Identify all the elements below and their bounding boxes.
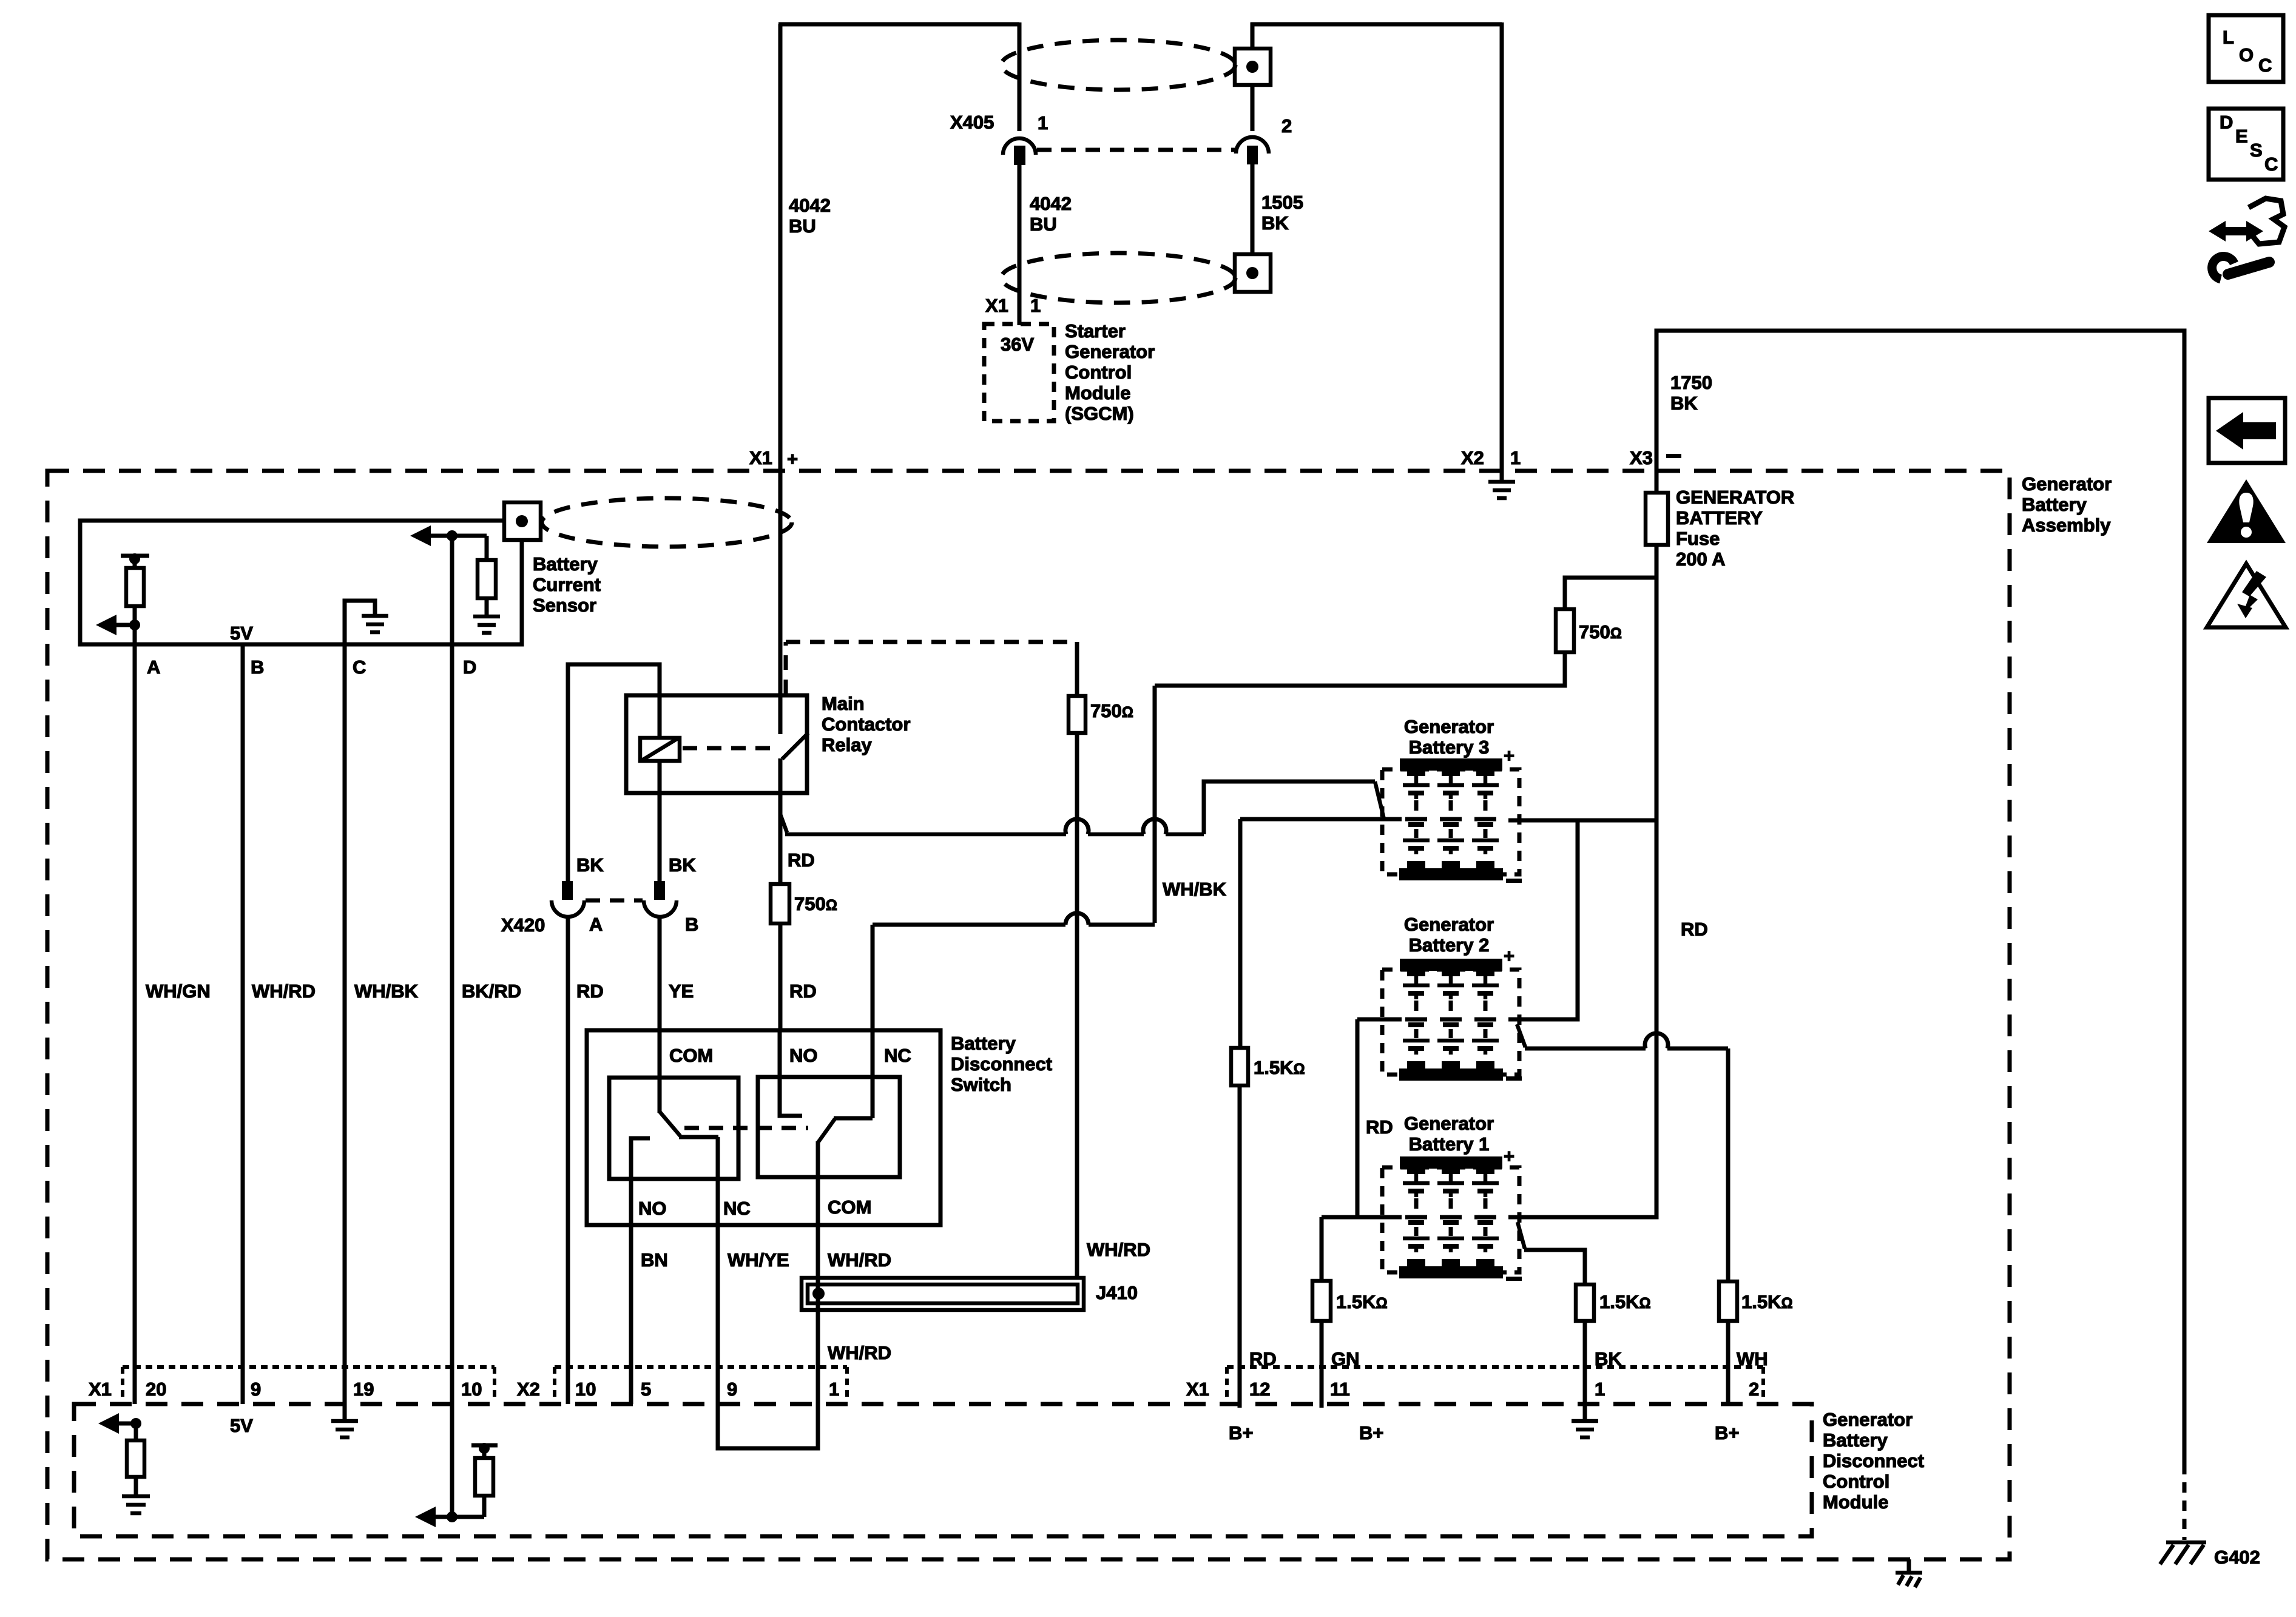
wire: relay output down to 750 ohm bbox=[778, 793, 783, 884]
svg-text:36V: 36V bbox=[1001, 334, 1034, 355]
wire: equalizing bus to battery 3 with hops bbox=[785, 819, 1204, 834]
svg-text:10: 10 bbox=[575, 1379, 596, 1400]
svg-text:Relay: Relay bbox=[822, 734, 872, 755]
label: 5V (inside sensor) bbox=[230, 623, 253, 644]
resistor (module leg A) bbox=[127, 1423, 144, 1477]
resistor 1.5K (WH sense X1-2) bbox=[1719, 1281, 1737, 1321]
svg-text:1: 1 bbox=[1510, 447, 1521, 468]
svg-text:NC: NC bbox=[723, 1198, 751, 1219]
svg-text:BK/RD: BK/RD bbox=[462, 981, 521, 1002]
label: 750 ohm (fuse branch) bbox=[1579, 621, 1622, 643]
label: WH/RD below J410 bbox=[828, 1342, 891, 1363]
svg-text:BATTERY: BATTERY bbox=[1676, 507, 1763, 528]
pole 2: NC wire from WH/BK ladder bbox=[871, 1030, 875, 1118]
resistor (sensor leg D) bbox=[478, 560, 496, 598]
label: J410 bbox=[1096, 1282, 1138, 1303]
svg-text:RD: RD bbox=[576, 981, 604, 1002]
svg-text:1: 1 bbox=[1030, 295, 1041, 316]
wire: battery 2 left mid tap bbox=[1357, 1018, 1402, 1022]
svg-text:X2: X2 bbox=[1461, 447, 1484, 468]
label: strip X1 left pins 20 9 19 10 bbox=[89, 1379, 482, 1400]
wire: enclosure right leg down to 750 ohm bbox=[1075, 642, 1079, 696]
label: bottom terminals NO NC COM bbox=[638, 1197, 871, 1219]
wire: sensor pin B WH/RD 5V to X1-9 bbox=[241, 644, 245, 1404]
svg-text:WH/RD: WH/RD bbox=[828, 1342, 891, 1363]
svg-text:NO: NO bbox=[638, 1198, 667, 1219]
pole 1: NC wire down bbox=[716, 1137, 720, 1225]
wire: battery 3 left mid tap to 1.5K RD sense bbox=[1240, 817, 1402, 822]
Main Contactor Relay box bbox=[626, 695, 807, 793]
svg-text:BU: BU bbox=[789, 215, 816, 237]
wire: X2 pin 1 drop to ground bbox=[1500, 22, 1504, 471]
dashed mating line between X405 halves bbox=[1037, 148, 1235, 152]
icon: removal/installation wrench with double arrow bbox=[2209, 198, 2284, 279]
connector X420 terminal B bbox=[644, 881, 677, 917]
Battery Current Sensor box bbox=[80, 521, 522, 644]
label: Generator Battery 3 bbox=[1404, 716, 1494, 758]
svg-text:(SGCM): (SGCM) bbox=[1065, 403, 1134, 424]
wire: RD sense to X1-12 bbox=[1238, 1085, 1242, 1404]
svg-text:J410: J410 bbox=[1096, 1282, 1138, 1303]
wire: BN from switch NO to X2-5 bbox=[629, 1225, 633, 1404]
label: BK BK coil wires bbox=[576, 854, 696, 876]
svg-text:+: + bbox=[787, 448, 798, 470]
chassis ground stub on assembly box bottom bbox=[1896, 1559, 1922, 1587]
label: B+ at pins 12 11 2 bbox=[1229, 1422, 1740, 1443]
wire: 4042 BU from X405 pin 1 to SGCM X1-1 bbox=[1018, 164, 1022, 325]
wire: equalizer lead down to J410 bbox=[1075, 733, 1079, 1278]
svg-text:COM: COM bbox=[828, 1197, 871, 1218]
svg-text:B+: B+ bbox=[1359, 1422, 1384, 1443]
svg-text:E: E bbox=[2235, 126, 2248, 147]
svg-text:C: C bbox=[2258, 55, 2272, 76]
svg-text:X420: X420 bbox=[501, 914, 545, 936]
resistor 1.5K (RD sense X1-12) bbox=[1231, 1048, 1248, 1085]
svg-text:Switch: Switch bbox=[951, 1074, 1011, 1095]
svg-text:1.5KΩ: 1.5KΩ bbox=[1254, 1057, 1305, 1078]
wire: relay coil terminal A loop to X420-A bbox=[568, 664, 660, 881]
wire: battery 1 left sense drop GN bbox=[1320, 1217, 1324, 1281]
label: 1.5K ohm (RD) bbox=[1254, 1057, 1305, 1078]
label: Generator Battery 1 bbox=[1404, 1113, 1494, 1155]
diagonal tap battery 1 to BK sense bbox=[1518, 1222, 1525, 1249]
wire: top horizontal from X1+ riser to X405 pin 1 bbox=[778, 22, 1019, 27]
svg-text:Battery: Battery bbox=[951, 1033, 1016, 1054]
svg-text:Fuse: Fuse bbox=[1676, 528, 1720, 549]
battery 1 mid plates bbox=[1405, 1215, 1496, 1220]
sensor connector box with junction dot bbox=[504, 502, 541, 540]
svg-text:200 A: 200 A bbox=[1676, 549, 1726, 570]
svg-text:Generator: Generator bbox=[1823, 1409, 1913, 1430]
battery 2 cells bbox=[1403, 970, 1499, 1069]
supply tap bar with dot above sensor resistor A bbox=[121, 553, 149, 568]
svg-text:1: 1 bbox=[829, 1379, 839, 1400]
svg-text:A: A bbox=[147, 657, 160, 678]
wire: sensor pin A WH/GN to X1-20 bbox=[133, 625, 137, 1404]
Battery Disconnect Switch box bbox=[587, 1030, 940, 1225]
svg-text:Assembly: Assembly bbox=[2022, 515, 2111, 536]
svg-text:RD: RD bbox=[788, 849, 815, 871]
ground symbol inside sensor (leg C) bbox=[345, 601, 388, 644]
Generator battery solid enclosure top/right bbox=[1656, 331, 2184, 1464]
svg-text:19: 19 bbox=[353, 1379, 374, 1400]
module leg D: drop arrow junction and pull-up bbox=[415, 1404, 484, 1527]
icon: caution triangle with exclamation bbox=[2207, 479, 2286, 543]
svg-text:1505: 1505 bbox=[1261, 192, 1303, 213]
label: 1.5K ohm (GN) bbox=[1336, 1291, 1388, 1312]
svg-text:Battery 1: Battery 1 bbox=[1409, 1133, 1490, 1155]
svg-text:Generator: Generator bbox=[1404, 914, 1494, 935]
switch pole 2 inner box bbox=[758, 1077, 900, 1177]
pole 1: COM wire and blade to NC bbox=[660, 1030, 718, 1137]
svg-text:1: 1 bbox=[1038, 112, 1048, 133]
svg-text:Generator: Generator bbox=[1404, 716, 1494, 737]
connector strip X1 (module right) dotted bbox=[1227, 1367, 1763, 1402]
svg-text:Main: Main bbox=[822, 693, 865, 714]
wire: WH/RD from switch COM through J410 to X2-1 bbox=[816, 1225, 820, 1404]
wire: sensor pin D BK/RD to X1-10 bbox=[450, 536, 454, 1404]
ground symbol under leg D resistor bbox=[473, 598, 500, 633]
svg-text:750Ω: 750Ω bbox=[1090, 700, 1133, 721]
svg-text:1750: 1750 bbox=[1670, 372, 1712, 393]
wire: WH sense to X1-2 bbox=[1726, 1321, 1730, 1404]
wire: X420-A RD down to X2-10 bbox=[566, 916, 570, 1404]
label: Generator Battery Assembly bbox=[2022, 473, 2112, 536]
svg-text:X1: X1 bbox=[985, 295, 1008, 316]
svg-text:5: 5 bbox=[641, 1379, 651, 1400]
label: X405 pin 2 bbox=[1281, 115, 1292, 137]
icon: electrical shock triangle bbox=[2207, 564, 2286, 627]
svg-text:Battery 3: Battery 3 bbox=[1409, 737, 1490, 758]
resistor 750 ohm (fuse branch) bbox=[1556, 609, 1574, 652]
ground symbol (module leg 19) bbox=[331, 1404, 358, 1437]
wire: between splice box and X405 pin 2 bbox=[1251, 85, 1255, 131]
svg-text:X1: X1 bbox=[89, 1379, 112, 1400]
label: BN WH/YE WH/RD bbox=[641, 1249, 891, 1271]
label: RD below relay bbox=[788, 849, 815, 871]
svg-text:Generator: Generator bbox=[1065, 341, 1155, 362]
svg-text:WH/BK: WH/BK bbox=[354, 981, 419, 1002]
svg-text:12: 12 bbox=[1249, 1379, 1270, 1400]
diagonal tap battery 2 to WH sense line bbox=[1517, 1024, 1525, 1047]
wire: series link battery 2 left to battery 1 left mid (RD) bbox=[1322, 1019, 1402, 1217]
svg-text:WH/BK: WH/BK bbox=[1163, 879, 1227, 900]
signal arrow and junction dot on leg A bbox=[96, 615, 140, 635]
wire: X405 pin 1 drop bbox=[1018, 22, 1022, 131]
connector X405 pin 2 female terminal arc bbox=[1236, 137, 1269, 154]
connector label X3 - on assembly boundary bbox=[1630, 447, 1681, 468]
pole 1: NO contact stub bbox=[631, 1138, 650, 1225]
icon: LOC box bbox=[2209, 15, 2283, 82]
wire: WH/YE from switch NC to X2-9 bbox=[716, 1225, 720, 1404]
svg-text:Disconnect: Disconnect bbox=[1823, 1450, 1924, 1471]
svg-text:B: B bbox=[251, 657, 264, 678]
svg-text:NC: NC bbox=[884, 1045, 911, 1066]
wire: SGCM X1 feed 4042 BU vertical (circuit 4042) bbox=[778, 24, 783, 695]
svg-text:1: 1 bbox=[1595, 1379, 1605, 1400]
label: wire 1750 BK bbox=[1670, 372, 1712, 414]
svg-text:RD: RD bbox=[789, 981, 817, 1002]
svg-text:Generator: Generator bbox=[1404, 1113, 1494, 1134]
svg-text:WH/RD: WH/RD bbox=[828, 1249, 891, 1271]
pole 2: blade from COM to NC bbox=[818, 1118, 873, 1143]
label: Main Contactor Relay bbox=[822, 693, 910, 755]
wire: battery 1 right mid tap to RD bus corner bbox=[1508, 1215, 1656, 1217]
ground symbol (module pin 1 BK) bbox=[1572, 1404, 1598, 1437]
label: Battery Disconnect Switch bbox=[951, 1033, 1052, 1095]
svg-text:X405: X405 bbox=[950, 112, 994, 133]
label: RD on main bus bbox=[1681, 919, 1708, 940]
label: strip X1 right pins 12 11 1 2 bbox=[1186, 1379, 1759, 1400]
svg-text:BK: BK bbox=[669, 854, 696, 876]
svg-text:B: B bbox=[685, 914, 698, 935]
harness ellipse (upper) crossing X405 leads bbox=[1001, 40, 1235, 90]
wire: X405 pin 2 upper drop bbox=[1251, 22, 1255, 50]
ground symbol at SGCM X2-1 bbox=[1488, 471, 1515, 498]
wire: X1-12 stub into module bbox=[1238, 1404, 1242, 1408]
harness ellipse (lower) crossing SGCM lead bbox=[1001, 253, 1235, 303]
svg-text:+: + bbox=[1504, 945, 1514, 967]
svg-text:BK: BK bbox=[1261, 212, 1289, 234]
label: RD series link bbox=[1366, 1116, 1393, 1138]
label: SGCM connector X1 1 bbox=[985, 295, 1041, 316]
label: top terminals COM NO NC bbox=[669, 1045, 911, 1066]
relay enclosure dashed outline bbox=[786, 642, 1077, 694]
battery 3 cells bbox=[1403, 770, 1499, 869]
wire: NC feed drop into battery disconnect switch bbox=[871, 925, 875, 1030]
resistor (sensor leg A pull-up) bbox=[126, 568, 144, 606]
splice box on 1505 BK (lower) bbox=[1235, 254, 1271, 292]
connector X405 pin 1 female terminal arc bbox=[1003, 138, 1036, 155]
svg-text:X2: X2 bbox=[517, 1379, 540, 1400]
svg-text:9: 9 bbox=[251, 1379, 261, 1400]
fuse: GENERATOR BATTERY Fuse 200 A bbox=[1646, 493, 1668, 545]
connector X420 terminal A bbox=[552, 881, 584, 917]
battery 2 mid plates bbox=[1405, 1018, 1496, 1022]
svg-text:Current: Current bbox=[533, 574, 601, 595]
label: strip X2 pins 10 5 9 1 bbox=[517, 1379, 839, 1400]
svg-text:B+: B+ bbox=[1229, 1422, 1254, 1443]
resistor 750 ohm (equalizer to J410) bbox=[1069, 696, 1086, 733]
svg-text:YE: YE bbox=[669, 981, 694, 1002]
svg-text:RD: RD bbox=[1366, 1116, 1393, 1138]
label: Starter Generator Control Module (SGCM) bbox=[1065, 320, 1155, 424]
svg-text:750Ω: 750Ω bbox=[794, 893, 837, 914]
svg-text:BN: BN bbox=[641, 1249, 668, 1271]
label: pin letters A B C D bbox=[147, 657, 476, 678]
ground symbol (module leg A) bbox=[122, 1477, 150, 1513]
svg-text:Battery 2: Battery 2 bbox=[1409, 934, 1490, 956]
battery 3 mid plates bbox=[1405, 817, 1496, 822]
svg-text:D: D bbox=[463, 657, 476, 678]
connector label X2 1 on assembly boundary bbox=[1461, 447, 1521, 468]
svg-text:Battery: Battery bbox=[2022, 494, 2087, 515]
svg-text:Generator: Generator bbox=[2022, 473, 2112, 495]
label: RD above switch NO bbox=[789, 981, 817, 1002]
svg-text:GENERATOR: GENERATOR bbox=[1676, 487, 1794, 508]
svg-text:Starter: Starter bbox=[1065, 320, 1126, 342]
Generator Battery Assembly outer dashed box bbox=[47, 471, 2010, 1559]
chassis ground G402 bbox=[2160, 1542, 2206, 1564]
Generator Battery Disconnect Control Module dashed box bbox=[74, 1404, 1812, 1536]
label: WH/RD above J410 right lead bbox=[1087, 1239, 1150, 1260]
svg-text:5V: 5V bbox=[230, 623, 253, 644]
svg-text:Control: Control bbox=[1065, 362, 1132, 383]
relay contact: incoming wire and open blade bbox=[780, 695, 808, 793]
module loop joining X2-9 and X2-1 bbox=[718, 1404, 818, 1448]
svg-text:4042: 4042 bbox=[789, 195, 831, 216]
svg-text:+: + bbox=[1504, 745, 1514, 766]
svg-text:2: 2 bbox=[1281, 115, 1292, 137]
wire: GN sense to X1-11 bbox=[1320, 1321, 1324, 1404]
svg-text:L: L bbox=[2223, 27, 2234, 48]
harness ellipse at battery current sensor bbox=[542, 498, 792, 547]
svg-text:Battery: Battery bbox=[1823, 1430, 1888, 1451]
wire: X420-B YE down to switch COM bbox=[658, 916, 662, 1030]
label: Generator Battery Disconnect Control Module bbox=[1823, 1409, 1924, 1513]
icon: DESC box bbox=[2209, 109, 2283, 180]
svg-text:Control: Control bbox=[1823, 1471, 1889, 1492]
svg-text:Disconnect: Disconnect bbox=[951, 1053, 1052, 1075]
label: wire 4042 BU (right) bbox=[1030, 193, 1072, 235]
svg-text:Module: Module bbox=[1065, 382, 1131, 403]
svg-text:4042: 4042 bbox=[1030, 193, 1072, 214]
connector label X1 + on assembly boundary bbox=[749, 447, 798, 470]
supply tap bar with dot above leg D resistor bbox=[471, 1443, 498, 1458]
label: RD YE below X420 bbox=[576, 981, 694, 1002]
switch pole 1 inner box bbox=[609, 1078, 738, 1179]
svg-text:20: 20 bbox=[146, 1379, 166, 1400]
svg-text:Contactor: Contactor bbox=[822, 714, 910, 735]
svg-text:B+: B+ bbox=[1715, 1422, 1740, 1443]
label: 5V at module pin 9 bbox=[230, 1415, 253, 1436]
svg-text:COM: COM bbox=[669, 1045, 713, 1066]
dashed tail of right enclosure edge to G402 bbox=[2183, 1464, 2187, 1540]
svg-text:G402: G402 bbox=[2214, 1547, 2260, 1568]
SGCM module dashed box bbox=[984, 324, 1054, 421]
label: wire 4042 BU (left) bbox=[789, 195, 831, 237]
svg-text:WH/RD: WH/RD bbox=[252, 981, 316, 1002]
label: X405 bbox=[950, 112, 994, 133]
svg-text:Sensor: Sensor bbox=[533, 595, 596, 616]
pole 2: COM wire down bbox=[816, 1141, 820, 1225]
label: 750 ohm (equalizer) bbox=[1090, 700, 1133, 721]
wire: equalizing bus riser to battery 3 plus feed bbox=[1204, 781, 1375, 834]
wire: resistor to junction A bbox=[133, 606, 137, 625]
label: 1.5K ohm (BK) bbox=[1599, 1291, 1651, 1312]
wire: battery 3 right mid tap to RD bus bbox=[1508, 819, 1656, 823]
dashed actuator link from coil to contact bbox=[683, 746, 773, 751]
wire: RD from 750 ohm to switch NO bbox=[778, 923, 783, 1030]
wire: WH drop to 1.5K bbox=[1726, 1048, 1730, 1281]
label: Generator Battery 2 bbox=[1404, 914, 1494, 956]
label: X405 pin 1 bbox=[1038, 112, 1048, 133]
mechanical linkage dashes pole 1 bbox=[684, 1126, 808, 1130]
connector strip X2 dotted bbox=[555, 1367, 847, 1402]
label: Battery Current Sensor bbox=[533, 553, 601, 616]
svg-text:WH/RD: WH/RD bbox=[1087, 1239, 1150, 1260]
wire: WH/BK horizontal to battery disconnect switch NC with hop over 750 ohm lead bbox=[873, 913, 1155, 925]
pole 2: NO wire and stub bbox=[780, 1030, 802, 1116]
svg-text:WH/YE: WH/YE bbox=[728, 1249, 789, 1271]
wire: battery 1 minus to BK 1.5K bbox=[1524, 1250, 1585, 1284]
wire: relay coil terminal B to X420-B bbox=[658, 761, 662, 881]
svg-text:BK: BK bbox=[576, 854, 604, 876]
wire: sensor pin C WH/BK to X1-19 bbox=[343, 644, 347, 1404]
wire: 1505 BK from X405 pin 2 to lower splice box bbox=[1251, 163, 1255, 255]
junction block J410 bbox=[802, 1278, 1084, 1310]
svg-text:BK: BK bbox=[1670, 393, 1698, 414]
wire: series link battery 3 right to battery 2 right mid bbox=[1508, 820, 1578, 1019]
svg-text:D: D bbox=[2220, 112, 2233, 133]
wire: X1-11 stub into module bbox=[1320, 1404, 1324, 1408]
label: 750 ohm (relay output) bbox=[794, 893, 837, 914]
svg-text:1.5KΩ: 1.5KΩ bbox=[1741, 1291, 1793, 1312]
label: 36V inside SGCM bbox=[1001, 334, 1034, 355]
label: wire colors WH/GN WH/RD WH/BK BK/RD bbox=[146, 981, 521, 1002]
svg-text:1.5KΩ: 1.5KΩ bbox=[1336, 1291, 1388, 1312]
svg-text:Module: Module bbox=[1823, 1491, 1889, 1513]
svg-text:O: O bbox=[2239, 44, 2254, 66]
label: G402 bbox=[2214, 1547, 2260, 1568]
wire: branch from RD bus to 750 ohm dropping resistor bbox=[1565, 578, 1656, 609]
battery 1 cells bbox=[1403, 1168, 1499, 1267]
battery 2 body with plus/minus bbox=[1382, 945, 1522, 1081]
wire: BK sense to X1-1 bbox=[1583, 1321, 1587, 1404]
label: RD GN BK WH wire colors bbox=[1249, 1348, 1768, 1369]
branch diagonal from relay output to equalizing bus bbox=[780, 814, 787, 832]
dashed mating line X420 bbox=[586, 899, 643, 903]
svg-text:NO: NO bbox=[789, 1045, 818, 1066]
wire: battery 2 minus to WH 1.5K with hop over RD bus bbox=[1525, 1033, 1728, 1048]
signal arrow line with junction dot on leg D bbox=[410, 525, 487, 546]
svg-text:1.5KΩ: 1.5KΩ bbox=[1599, 1291, 1651, 1312]
wire: WH/BK vertical drop bbox=[1153, 686, 1157, 923]
wire: battery 3 left sense drop RD bbox=[1238, 819, 1243, 1048]
svg-text:+: + bbox=[1504, 1146, 1514, 1167]
svg-text:750Ω: 750Ω bbox=[1579, 621, 1622, 643]
svg-text:9: 9 bbox=[727, 1379, 737, 1400]
svg-text:C: C bbox=[2264, 154, 2278, 175]
resistor 750 ohm (relay output) bbox=[771, 884, 789, 923]
label: GENERATOR BATTERY Fuse 200 A bbox=[1676, 487, 1794, 570]
splice box on X405 pin 2 branch (upper) bbox=[1235, 49, 1271, 85]
wire: main RD bus below fuse down to battery 1 tap bbox=[1655, 545, 1659, 1215]
diagonal tap into battery 3 left bbox=[1375, 781, 1384, 819]
relay coil bbox=[640, 738, 680, 761]
svg-text:BU: BU bbox=[1030, 214, 1057, 235]
svg-text:S: S bbox=[2250, 140, 2263, 161]
resistor (module leg D pull-up) bbox=[475, 1458, 493, 1517]
svg-text:C: C bbox=[353, 657, 366, 678]
svg-text:WH/GN: WH/GN bbox=[146, 981, 211, 1002]
svg-text:11: 11 bbox=[1330, 1379, 1350, 1400]
wire: top horizontal to X2 drop bbox=[1251, 22, 1502, 27]
svg-text:X1: X1 bbox=[1186, 1379, 1209, 1400]
battery 1 body with plus/minus bbox=[1382, 1146, 1522, 1281]
module leg A: arrow junction resistor and ground bbox=[98, 1413, 141, 1434]
svg-text:5V: 5V bbox=[230, 1415, 253, 1436]
wire: to sensor leg D resistor bbox=[485, 536, 489, 560]
connector X405 pin 1 male terminal pin bbox=[1014, 146, 1025, 165]
battery 3 body with plus/minus bbox=[1382, 745, 1522, 883]
resistor 1.5K (GN sense X1-11) bbox=[1312, 1281, 1331, 1321]
connector strip X1 (module left) dotted bbox=[123, 1367, 495, 1402]
svg-text:X3: X3 bbox=[1630, 447, 1653, 468]
label: 1.5K ohm (WH) bbox=[1741, 1291, 1793, 1312]
connector X405 pin 2 male terminal pin bbox=[1247, 146, 1258, 164]
svg-text:Battery: Battery bbox=[533, 553, 598, 575]
